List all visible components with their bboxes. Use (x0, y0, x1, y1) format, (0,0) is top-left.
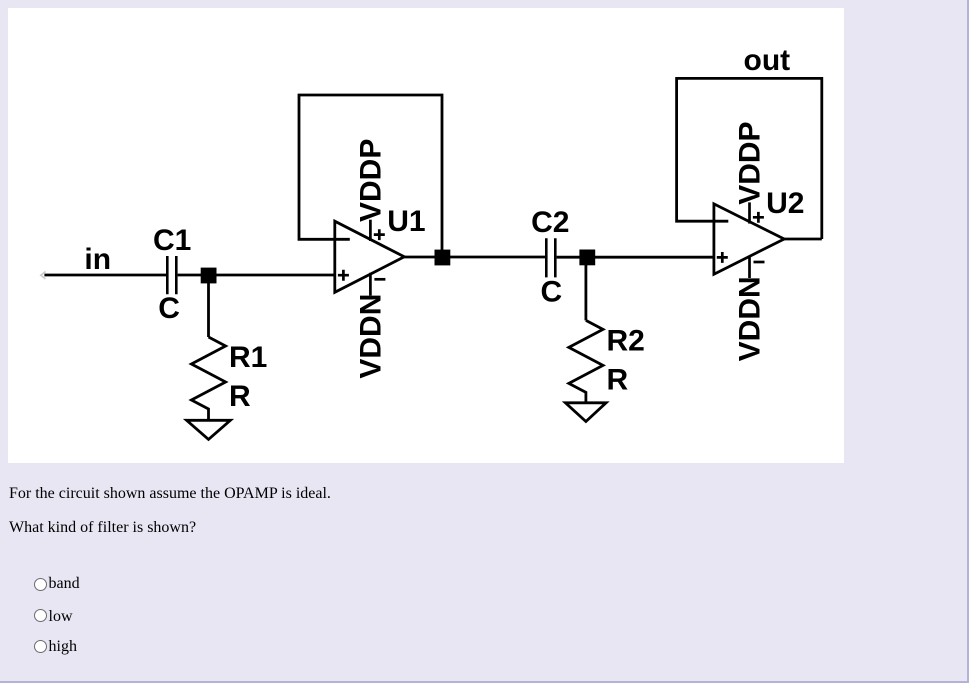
svg-text:R: R (607, 364, 629, 397)
radio low (34, 609, 47, 622)
U2 output wire (784, 238, 822, 241)
circuit schematic svg (8, 8, 844, 463)
resistor R2 zigzag (569, 320, 603, 402)
U1 VDDN minus mark (374, 278, 385, 281)
wire: node A down to R1 (207, 275, 210, 337)
capacitor C2 plates (546, 238, 555, 277)
node C junction square (579, 250, 595, 266)
svg-text:VDDN: VDDN (354, 294, 387, 379)
capacitor C1 plates (167, 256, 176, 294)
radio band (34, 578, 47, 591)
U2 VDDN minus mark (754, 261, 765, 264)
svg-text:R2: R2 (607, 325, 645, 358)
svg-text:U2: U2 (766, 187, 804, 220)
wire: C2 to U2 plus input (557, 256, 714, 259)
svg-text:in: in (84, 243, 111, 276)
wire: in to C1 (44, 274, 166, 277)
U2 VDDP pin (748, 202, 751, 223)
U1 inverting minus sign and feedback loop wire (299, 95, 442, 253)
input port chevron (41, 272, 46, 279)
wire: node C down to R2 (585, 257, 588, 320)
white schematic canvas (8, 8, 844, 463)
question line 2 (9, 520, 196, 536)
U1 VDDP pin (369, 220, 372, 241)
U1 VDDN pin (369, 273, 372, 296)
svg-text:R: R (229, 380, 251, 413)
U2 VDDN pin (748, 256, 751, 279)
node A junction square (201, 268, 217, 284)
op-amp U2 triangle (714, 204, 784, 274)
svg-text:C: C (541, 276, 563, 309)
U2 VDDP plus mark (753, 212, 764, 223)
U2 inverting minus sign and feedback loop wire to out (677, 78, 822, 239)
ground symbol (R2) (565, 403, 606, 422)
svg-text:VDDP: VDDP (354, 139, 387, 222)
question line 1 (9, 486, 331, 502)
wire: U1 output to C2 (404, 256, 546, 259)
svg-text:C2: C2 (531, 206, 569, 239)
svg-text:VDDP: VDDP (733, 121, 766, 204)
U1 VDDP plus mark (374, 229, 385, 240)
svg-text:C1: C1 (153, 224, 191, 257)
svg-text:out: out (744, 44, 791, 77)
wire: C1 to U1 plus input (178, 274, 335, 277)
U2 plus sign (717, 252, 728, 263)
node B junction square (435, 250, 451, 266)
svg-text:R1: R1 (229, 341, 267, 374)
svg-text:U1: U1 (387, 205, 425, 238)
ground symbol (R1) (187, 420, 231, 439)
U1 plus sign (338, 270, 349, 281)
svg-text:VDDN: VDDN (733, 276, 766, 361)
svg-text:C: C (158, 292, 180, 325)
op-amp U1 triangle (335, 221, 405, 292)
radio high (34, 640, 47, 653)
resistor R1 zigzag (191, 337, 225, 420)
